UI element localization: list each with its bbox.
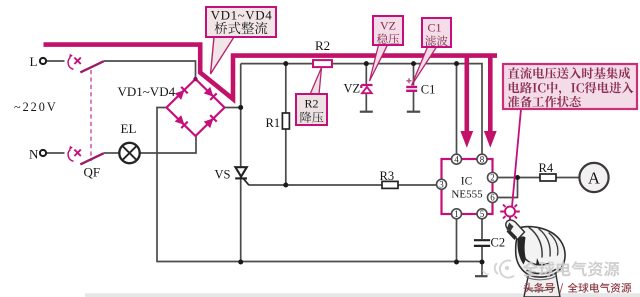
svg-text:C2: C2 (491, 236, 506, 250)
svg-text:C1: C1 (421, 83, 436, 97)
svg-text:R3: R3 (380, 169, 395, 183)
svg-text:VZ: VZ (344, 82, 361, 96)
svg-text:C1: C1 (427, 21, 441, 35)
svg-text:VZ: VZ (380, 19, 396, 33)
svg-text:NE555: NE555 (451, 189, 483, 201)
svg-text:1: 1 (454, 209, 459, 219)
svg-text:R2: R2 (315, 38, 330, 53)
svg-text:VS: VS (215, 168, 231, 182)
svg-text:6: 6 (490, 193, 495, 203)
svg-text:L: L (30, 54, 38, 69)
svg-text:EL: EL (121, 121, 137, 136)
svg-text:~220V: ~220V (14, 100, 58, 114)
svg-text:QF: QF (84, 165, 101, 180)
svg-text:R1: R1 (266, 116, 281, 130)
svg-text:VD1~VD4: VD1~VD4 (118, 84, 176, 99)
svg-text:2: 2 (490, 173, 495, 183)
svg-text:A: A (588, 169, 600, 188)
svg-text:8: 8 (480, 154, 485, 164)
svg-text:IC: IC (461, 176, 473, 188)
svg-text:R2: R2 (304, 97, 318, 111)
svg-text:R4: R4 (539, 161, 554, 175)
svg-text:VD1~VD4: VD1~VD4 (211, 8, 273, 23)
svg-text:N: N (29, 146, 39, 161)
svg-text:4: 4 (454, 154, 459, 164)
svg-text:3: 3 (439, 179, 444, 189)
svg-text:5: 5 (480, 209, 485, 219)
